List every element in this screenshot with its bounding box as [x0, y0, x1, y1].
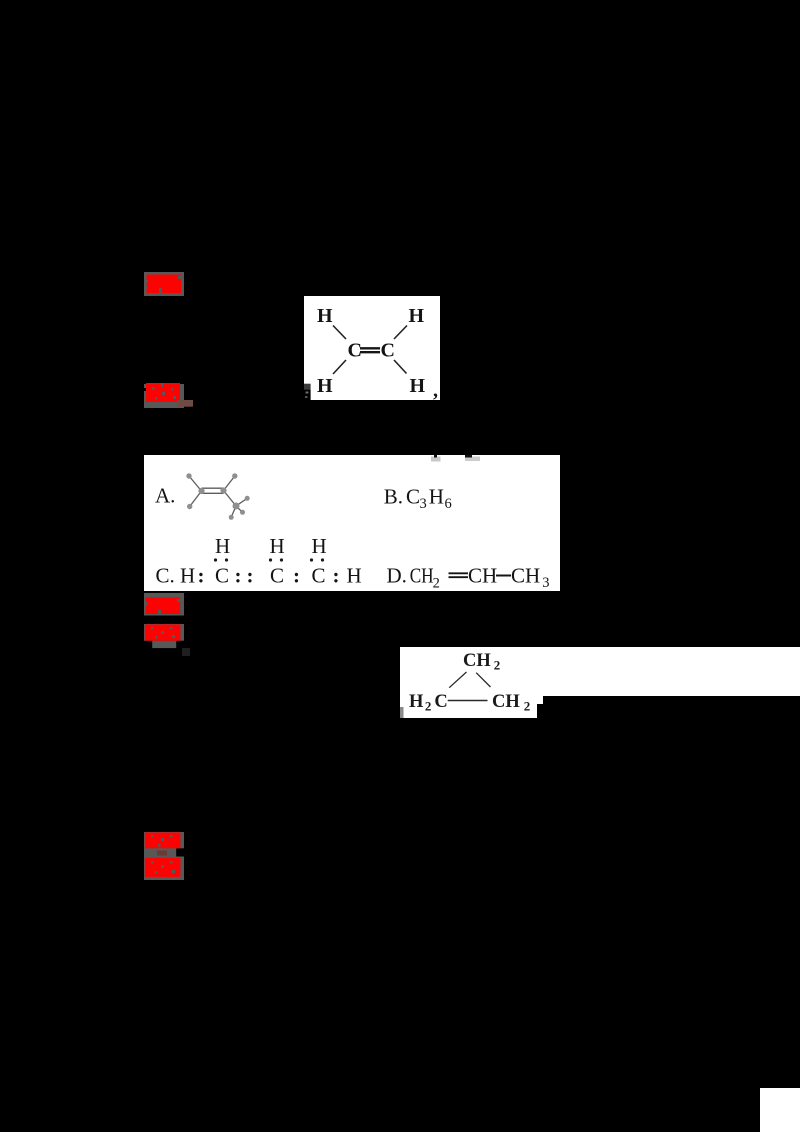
svg-text:H2C: H2C [409, 692, 448, 714]
svg-text:A.: A. [155, 483, 175, 507]
svg-text:CH3: CH3 [511, 563, 549, 591]
svg-text:C: C [381, 340, 395, 362]
svg-text:H: H [410, 375, 426, 397]
svg-text:CH: CH [468, 563, 497, 587]
svg-text::: : [293, 563, 300, 587]
svg-text:H: H [317, 305, 333, 327]
svg-text:H: H [215, 534, 230, 558]
svg-text:B.: B. [384, 484, 403, 508]
svg-text:C: C [312, 563, 326, 587]
svg-text:H: H [180, 563, 195, 587]
svg-text:C.: C. [156, 563, 175, 587]
svg-text:C: C [215, 563, 229, 587]
svg-text:CH: CH [410, 563, 434, 587]
svg-text::: : [198, 563, 205, 587]
svg-text::: : [235, 563, 242, 587]
svg-text:H: H [312, 534, 327, 558]
svg-text:D.: D. [387, 563, 407, 587]
svg-text:C: C [270, 563, 284, 587]
svg-text:C3H6: C3H6 [406, 484, 452, 512]
svg-text:C: C [348, 340, 362, 362]
svg-text:H: H [270, 534, 285, 558]
svg-text:2: 2 [433, 575, 440, 591]
svg-text::: : [247, 563, 254, 587]
svg-text:H: H [347, 563, 362, 587]
svg-text:CH2: CH2 [463, 651, 500, 673]
svg-text:,: , [433, 380, 438, 401]
svg-text:H: H [409, 305, 425, 327]
svg-text:H: H [317, 375, 333, 397]
svg-text:CH2: CH2 [492, 692, 530, 714]
svg-text::: : [333, 563, 340, 587]
